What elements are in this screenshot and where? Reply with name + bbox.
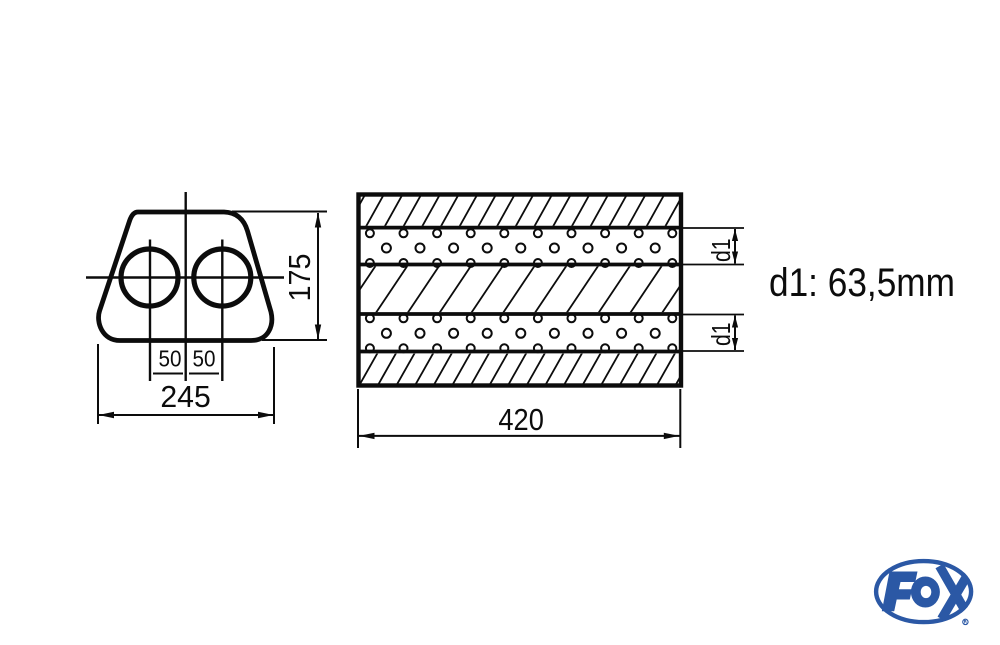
svg-text:50: 50	[159, 346, 182, 372]
centerline vertical left port	[149, 240, 151, 382]
d1 arrow down lower	[732, 338, 738, 350]
d1 extension line 4	[681, 350, 744, 352]
420 arrow right	[664, 433, 680, 439]
d1 arrow down upper	[732, 252, 738, 264]
trapezoid shell outline	[99, 212, 272, 341]
logo letter X	[940, 566, 973, 620]
245 arrow right	[258, 412, 274, 418]
port circle right	[194, 249, 251, 306]
logo registered mark	[963, 619, 968, 624]
245 dimension line	[98, 414, 274, 416]
svg-text:d1: d1	[706, 323, 736, 347]
d1 extension line 1	[681, 227, 744, 229]
d1 arrow up lower	[732, 316, 738, 328]
50 dim line left	[153, 373, 183, 375]
175 dimension line	[317, 213, 319, 339]
port circle left	[121, 249, 178, 306]
245 extension line left	[97, 344, 99, 424]
absorber hatch middle band	[343, 265, 726, 315]
svg-text:175: 175	[282, 254, 317, 302]
body rectangle	[359, 195, 682, 386]
svg-text:420: 420	[498, 402, 544, 437]
d1 arrow up upper	[732, 229, 738, 241]
tube boundary line 2	[359, 263, 680, 267]
tube boundary line 1	[359, 226, 680, 230]
centerline vertical middle	[184, 192, 186, 381]
175 arrow bottom	[315, 325, 321, 340]
420 arrow left	[359, 433, 375, 439]
420 extension line right	[679, 389, 681, 448]
centerline vertical right port	[221, 240, 223, 382]
svg-text:50: 50	[193, 346, 216, 372]
tube boundary line 3	[359, 312, 680, 316]
d1 extension line 2	[681, 264, 744, 266]
d1 dim line lower	[734, 316, 736, 351]
svg-text:d1: 63,5mm: d1: 63,5mm	[769, 261, 955, 305]
420 extension line left	[357, 389, 359, 448]
svg-text:245: 245	[160, 379, 210, 414]
perforated tube 1 holes	[366, 229, 693, 352]
svg-text:d1: d1	[706, 239, 736, 263]
175 arrow top	[315, 213, 321, 228]
logo letter O	[911, 577, 940, 608]
d1 extension line 3	[681, 314, 744, 316]
absorber hatch top band	[346, 194, 721, 229]
175 extension line bottom	[262, 339, 327, 341]
175 extension line top	[232, 211, 327, 213]
245 extension line right	[273, 347, 275, 424]
d1 dim line upper	[734, 229, 736, 264]
centerline horizontal	[86, 276, 284, 278]
420 dimension line	[358, 435, 680, 437]
logo ellipse	[876, 561, 971, 622]
245 arrow left	[99, 412, 115, 418]
perforated tube 2 holes	[366, 314, 374, 322]
tube boundary line 4	[359, 350, 680, 354]
absorber hatch bottom band	[340, 352, 713, 387]
logo letter F	[882, 572, 918, 612]
50 dim line right	[189, 373, 219, 375]
